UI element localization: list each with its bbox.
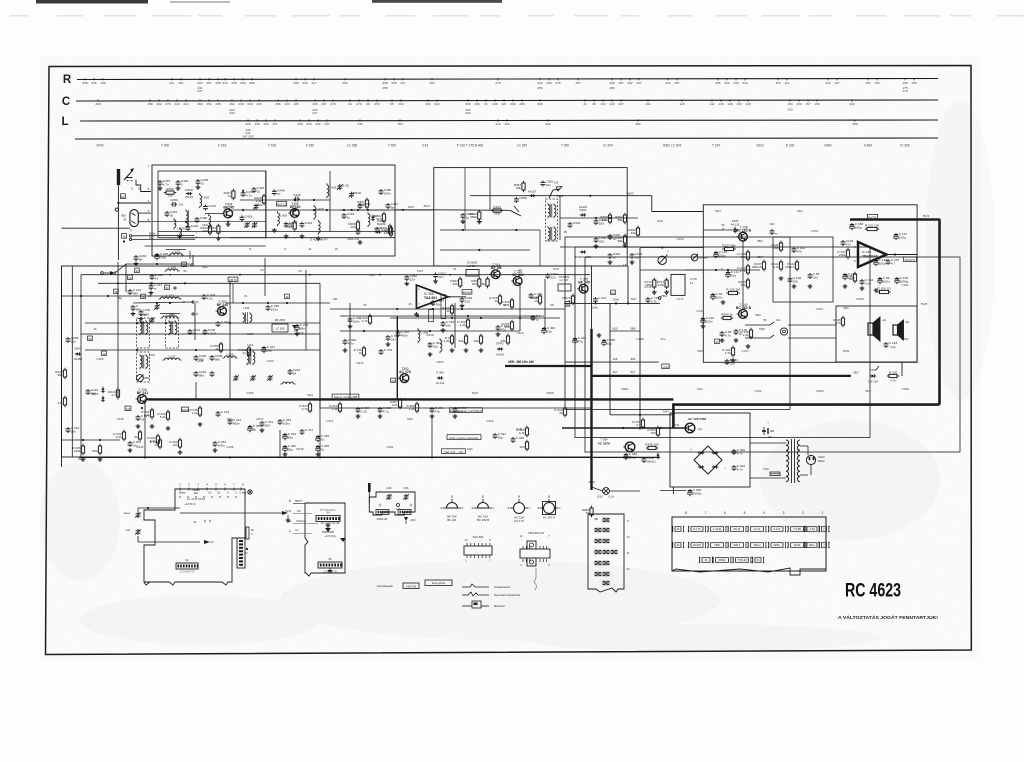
svg-text:437: 437 <box>272 122 277 126</box>
PCB1 internal <box>180 496 236 506</box>
svg-text:5)V4: 5)V4 <box>553 267 559 271</box>
svg-text:8,5V: 8,5V <box>597 495 603 499</box>
svg-text:308: 308 <box>465 102 470 106</box>
node h-58 <box>594 517 598 521</box>
C line component numbers <box>95 99 854 106</box>
svg-text:1n: 1n <box>347 215 351 219</box>
svg-text:5: 5 <box>744 511 746 515</box>
boxlabel Hg <box>611 290 616 295</box>
svg-text:AM 7b: AM 7b <box>229 278 237 282</box>
node 5V5 <box>516 427 522 431</box>
svg-text:T95k: T95k <box>714 543 720 547</box>
svg-text:263: 263 <box>342 81 347 85</box>
svg-text:C323: C323 <box>517 331 524 335</box>
svg-text:56: 56 <box>849 277 853 281</box>
wire audio-in <box>640 269 703 271</box>
svg-text:440: 440 <box>357 122 362 126</box>
svg-text:100n: 100n <box>271 307 278 311</box>
scan smudge top-left2 <box>170 1 230 3</box>
diode D195 <box>733 227 736 233</box>
capacitor C312 <box>260 420 274 432</box>
svg-text:(58: (58 <box>594 517 598 521</box>
capacitor C345 <box>316 444 330 452</box>
svg-text:D408: D408 <box>185 188 193 192</box>
IF can L243 <box>247 343 255 365</box>
svg-text:154: 154 <box>874 81 879 85</box>
svg-text:100n: 100n <box>706 320 713 324</box>
svg-text:1k: 1k <box>154 443 158 447</box>
wire 5V3 drop <box>627 266 629 305</box>
coil L425 <box>174 218 176 229</box>
boxlabel RuT10 <box>277 201 287 206</box>
svg-text:439: 439 <box>254 122 259 126</box>
capacitor C325 <box>461 212 474 223</box>
caption mw <box>508 360 533 364</box>
boxlabel 18 <box>114 289 119 294</box>
capacitor C341 <box>493 432 507 439</box>
wire demod out <box>448 279 496 297</box>
capacitor C156 <box>878 276 890 284</box>
svg-text:81k: 81k <box>459 339 464 343</box>
svg-text:L429: L429 <box>280 214 287 218</box>
ground mid <box>343 348 484 356</box>
resistor R147 <box>837 248 849 259</box>
IF transformer L209 <box>548 203 556 218</box>
svg-text:R127 40k: R127 40k <box>722 243 736 247</box>
resistor R429 <box>254 194 265 205</box>
wire vert306 <box>305 270 307 350</box>
svg-text:0364: 0364 <box>824 144 831 148</box>
svg-text:4,7: 4,7 <box>891 261 896 265</box>
diode D210 <box>101 387 104 402</box>
resistor R242 <box>113 430 141 441</box>
svg-text:L 227: L 227 <box>166 293 174 297</box>
svg-text:100μ: 100μ <box>879 262 886 266</box>
svg-text:8: 8 <box>685 511 687 515</box>
svg-text:3,2μ: 3,2μ <box>890 345 896 349</box>
capacitor C347m <box>262 345 276 353</box>
pinout AC187K <box>538 495 561 520</box>
svg-text:6: 6 <box>181 182 183 186</box>
wire vert743 <box>742 241 744 310</box>
agc box <box>575 247 870 438</box>
resistor R402 <box>374 212 385 223</box>
switch slant <box>510 206 521 216</box>
resistor R362a <box>615 213 626 224</box>
node 50 <box>722 219 740 230</box>
svg-text:680k: 680k <box>470 215 477 219</box>
svg-text:345: 345 <box>91 81 96 85</box>
resistor R313 <box>329 402 341 413</box>
svg-text:206: 206 <box>474 102 479 106</box>
svg-text:1M: 1M <box>554 181 559 185</box>
jack contacts <box>760 318 781 338</box>
svg-text:95k: 95k <box>774 246 779 250</box>
svg-text:298: 298 <box>293 81 298 85</box>
capacitor C311 <box>348 316 362 323</box>
big box R716 <box>671 274 697 295</box>
svg-text:50: 50 <box>764 318 767 322</box>
svg-text:39: 39 <box>586 511 590 515</box>
ground am lower <box>128 448 218 454</box>
svg-text:980: 980 <box>199 373 204 377</box>
svg-text:L435: L435 <box>330 186 337 190</box>
resistor R105 <box>887 370 899 382</box>
svg-text:129: 129 <box>679 102 684 106</box>
svg-text:426: 426 <box>545 122 550 126</box>
svg-text:223: 223 <box>174 102 179 106</box>
capacitor C308 <box>378 406 392 413</box>
wire transformer <box>750 443 811 478</box>
svg-text:179: 179 <box>902 89 907 93</box>
PCB1 wire1 <box>138 507 180 512</box>
svg-text:5k: 5k <box>482 282 486 286</box>
wire 5V3 upper <box>470 192 703 212</box>
svg-text:134: 134 <box>600 102 605 106</box>
svg-text:56)7: 56)7 <box>853 371 859 375</box>
pins FM bottom <box>249 247 338 251</box>
svg-text:390(L): 390(L) <box>647 459 656 463</box>
svg-text:3: 3 <box>783 511 785 515</box>
wire FM mid <box>205 209 262 214</box>
resistor P308 <box>600 213 611 224</box>
wire AM rf net3 <box>133 302 193 304</box>
resistor R316 <box>501 298 513 309</box>
svg-text:+: + <box>767 421 769 425</box>
capacitor C145 <box>843 272 857 280</box>
capacitor C345b <box>316 434 330 442</box>
svg-text:270: 270 <box>356 102 361 106</box>
resistor R310 <box>554 406 566 417</box>
svg-text:4,7n: 4,7n <box>348 341 354 345</box>
svg-text:1,2k: 1,2k <box>602 218 608 222</box>
resistor R431 <box>209 224 220 235</box>
box LC354 <box>466 260 479 276</box>
svg-text:4,7k: 4,7k <box>302 407 308 411</box>
svg-text:10: 10 <box>534 299 538 303</box>
svg-text:D047: D047 <box>75 347 82 351</box>
resistor R240 <box>55 368 66 379</box>
svg-text:326: 326 <box>312 102 317 106</box>
svg-text:433: 433 <box>263 122 268 126</box>
thick wire power drop <box>672 403 675 428</box>
resistor R366 <box>469 210 481 224</box>
node D300c <box>436 371 444 375</box>
svg-text:157: 157 <box>805 102 810 106</box>
capacitor C104 <box>711 292 723 300</box>
svg-text:4,7μ: 4,7μ <box>383 409 389 413</box>
svg-text:100n: 100n <box>716 296 723 300</box>
svg-text:0310: 0310 <box>756 144 763 148</box>
svg-text:PU: PU <box>297 509 301 513</box>
transformer <box>786 439 800 483</box>
coil L237 <box>163 354 182 360</box>
capacitor C148a <box>841 239 854 246</box>
resistor R407 <box>357 198 368 209</box>
capacitor C347 <box>592 296 607 309</box>
node 5V3 r <box>921 214 929 306</box>
boxlabel 6V4V <box>462 290 472 295</box>
svg-text:L262: L262 <box>247 332 254 336</box>
resistor R405 <box>381 226 392 237</box>
IF can L241 <box>166 313 179 348</box>
resistor R121 <box>722 346 734 357</box>
svg-text:Feszültségek: Feszültségek <box>377 584 393 588</box>
capacitor C450 <box>170 198 183 207</box>
svg-text:Mérőpont: Mérőpont <box>494 604 505 608</box>
svg-text:6-120: 6-120 <box>774 527 781 531</box>
capacitor C381 <box>283 444 297 452</box>
svg-text:6,8: 6,8 <box>179 203 184 207</box>
svg-text:150: 150 <box>796 102 801 106</box>
svg-text:417: 417 <box>400 81 405 85</box>
svg-text:4eves: 4eves <box>124 512 131 515</box>
R line stacked numbers <box>197 86 907 93</box>
svg-text:220μ: 220μ <box>719 254 726 258</box>
svg-text:305: 305 <box>715 81 720 85</box>
capacitor C363a <box>216 320 230 327</box>
svg-text:BF245: BF245 <box>223 205 234 209</box>
svg-text:16: 16 <box>142 295 145 299</box>
boxlabel 66 <box>565 302 570 307</box>
node NC <box>770 222 778 235</box>
PCB3 outline <box>369 492 415 515</box>
C line stacked numbers <box>229 108 792 115</box>
capacitor C158 <box>850 222 864 230</box>
svg-text:276: 276 <box>555 81 560 85</box>
svg-text:5,8: 5,8 <box>675 423 679 427</box>
svg-text:256: 256 <box>537 86 542 90</box>
svg-text:6V(TV): 6V(TV) <box>868 215 877 219</box>
ground AMmix <box>136 407 203 430</box>
svg-text:270: 270 <box>495 81 500 85</box>
resistor R433 <box>738 278 749 289</box>
resistor R211 <box>150 438 162 449</box>
scan smudge top-mid <box>372 0 502 3</box>
svg-text:C133: C133 <box>697 309 704 313</box>
svg-text:201: 201 <box>178 81 183 85</box>
svg-text:C255: C255 <box>247 391 254 395</box>
svg-text:4,7k: 4,7k <box>362 319 368 323</box>
svg-text:(4V)(TV): (4V)(TV) <box>905 258 916 262</box>
package TBA800 <box>520 531 551 567</box>
capacitor C220 <box>131 304 142 316</box>
coil L432 <box>200 193 210 208</box>
svg-text:L242: L242 <box>149 353 155 357</box>
svg-text:52μ: 52μ <box>498 435 503 439</box>
table row3 <box>699 557 764 563</box>
svg-text:220k A: 220k A <box>785 265 795 269</box>
svg-text:283: 283 <box>609 86 614 90</box>
svg-text:5)5a: 5)5a <box>843 306 849 310</box>
svg-text:0 364: 0 364 <box>864 144 872 148</box>
svg-text:C423: C423 <box>191 224 199 228</box>
pinout BC413 <box>472 495 495 523</box>
svg-text:R3125: R3125 <box>693 543 701 547</box>
svg-text:270: 270 <box>165 102 170 106</box>
svg-text:7μ: 7μ <box>321 448 325 452</box>
svg-text:235: 235 <box>215 102 220 106</box>
svg-text:560: 560 <box>287 225 292 229</box>
capacitor C360 <box>732 448 746 455</box>
svg-text:4,7n: 4,7n <box>737 451 743 455</box>
wire AM rf net <box>115 255 193 292</box>
svg-text:C452: C452 <box>200 216 208 220</box>
svg-text:5)5/9: 5)5/9 <box>843 349 850 353</box>
svg-text:400k B: 400k B <box>752 265 762 269</box>
svg-text:R106: R106 <box>817 389 824 393</box>
svg-text:C303: C303 <box>573 221 581 225</box>
capacitor D142 <box>725 358 739 365</box>
svg-text:64: 64 <box>348 102 352 106</box>
svg-text:165: 165 <box>911 81 916 85</box>
wire if vert560 <box>559 196 561 240</box>
AM inner box <box>81 334 320 457</box>
svg-text:1n: 1n <box>536 317 540 321</box>
wire am row323 <box>85 322 320 324</box>
svg-text:47μ: 47μ <box>435 409 440 413</box>
svg-text:7m: 7m <box>756 558 760 562</box>
svg-text:R205: R205 <box>137 445 144 449</box>
svg-text:96: 96 <box>564 230 568 234</box>
resistor R408 <box>164 187 176 197</box>
svg-text:L240: L240 <box>140 313 146 317</box>
mains plug <box>806 455 825 465</box>
svg-text:B: B <box>482 495 484 499</box>
svg-text:L238: L238 <box>197 359 204 363</box>
svg-text:R434 1k: R434 1k <box>721 312 733 316</box>
capacitor C451 <box>165 210 178 217</box>
coil L230 <box>165 265 187 273</box>
coil L435 <box>327 183 337 198</box>
svg-text:IC 390: IC 390 <box>900 144 910 148</box>
svg-text:100n: 100n <box>384 191 391 195</box>
svg-text:AC 176: AC 176 <box>399 370 411 374</box>
capacitor C303 <box>564 221 581 234</box>
resistor R322 <box>457 318 469 329</box>
svg-text:1,2k: 1,2k <box>192 411 198 415</box>
svg-text:4b: 4b <box>93 327 97 331</box>
svg-text:RC 4623: RC 4623 <box>845 580 901 602</box>
svg-text:R151: R151 <box>812 229 819 233</box>
svg-text:112: 112 <box>785 81 790 85</box>
svg-text:5(V7: 5(V7 <box>663 410 669 414</box>
svg-text:Ra: Ra <box>121 195 125 199</box>
antenna <box>117 169 120 260</box>
demod box <box>565 237 790 410</box>
svg-text:C717: C717 <box>677 297 684 301</box>
capacitor C447 <box>386 202 399 209</box>
svg-text:500μA: 500μA <box>699 256 709 260</box>
svg-text:BNTT.: BNTT. <box>295 499 302 503</box>
caption erzekenyseg <box>450 408 483 413</box>
boxlabel 21b <box>227 417 233 421</box>
svg-text:100k: 100k <box>358 203 365 207</box>
svg-text:142: 142 <box>709 102 714 106</box>
capacitor C424 <box>284 221 297 228</box>
svg-text:33n: 33n <box>391 337 396 341</box>
resistor R127 <box>722 243 736 250</box>
legend line1 <box>462 584 510 589</box>
PCB1 trimmer2 <box>125 529 140 535</box>
capacitor C318 <box>441 320 455 327</box>
resistor R168 <box>833 316 844 327</box>
capacitor C153 <box>886 258 900 265</box>
svg-text:AC 176: AC 176 <box>514 519 524 523</box>
svg-text:14: 14 <box>129 276 132 280</box>
node 6-201 <box>589 480 596 484</box>
svg-text:910: 910 <box>453 282 458 286</box>
svg-text:5)V6: 5)V6 <box>613 298 619 302</box>
coil L233 <box>166 249 190 259</box>
svg-text:38μ: 38μ <box>267 349 272 353</box>
boxlabel 62 <box>391 378 396 383</box>
paper tint <box>40 100 995 652</box>
scan smudge top-left <box>36 0 148 4</box>
svg-text:54: 54 <box>184 269 187 273</box>
resistor R155 <box>846 272 857 283</box>
wire antenna to pin1 <box>117 202 151 204</box>
capacitor C356 <box>540 180 553 187</box>
wire bulb <box>592 487 641 491</box>
svg-text:428: 428 <box>245 122 250 126</box>
ground IF <box>594 243 635 264</box>
resistor P144 <box>785 260 798 271</box>
svg-text:AM: AM <box>333 297 338 301</box>
capacitor C131 <box>726 270 740 278</box>
svg-text:+114: +114 <box>662 365 669 369</box>
svg-text:12b: 12b <box>126 407 131 411</box>
transistor T406 <box>288 202 300 217</box>
svg-text:1100: 1100 <box>354 191 361 195</box>
boxlabel 14b <box>128 275 133 280</box>
svg-text:C358: C358 <box>519 196 527 200</box>
svg-text:417: 417 <box>311 81 316 85</box>
svg-text:61)5: 61)5 <box>612 327 618 331</box>
trimmer C239 <box>233 375 239 381</box>
transistor T300 <box>398 367 411 382</box>
svg-text:437: 437 <box>324 122 329 126</box>
svg-text:10n: 10n <box>635 255 640 259</box>
svg-text:2 3 4 5 6 7 8: 2 3 4 5 6 7 8 <box>180 571 195 574</box>
capacitor C365 <box>688 488 702 496</box>
resistor R320 <box>359 314 371 325</box>
capacitor C126 <box>714 250 728 258</box>
svg-text:68k: 68k <box>618 239 623 243</box>
bus dots mw <box>529 365 593 367</box>
svg-text:223: 223 <box>813 275 818 279</box>
diode AA119 upper <box>528 190 537 198</box>
boxlabel 7a <box>78 457 82 461</box>
svg-text:R 160 1Ω: R 160 1Ω <box>877 286 891 290</box>
wire 503 <box>62 228 198 242</box>
svg-text:C449: C449 <box>293 193 301 197</box>
thick wire bottom right <box>673 403 939 406</box>
svg-text:54)1: 54)1 <box>369 273 375 277</box>
svg-text:158: 158 <box>902 81 907 85</box>
thick wire AM AF line <box>148 398 674 400</box>
PCB2 conn S5 <box>318 557 342 574</box>
diode D408 <box>185 188 193 199</box>
svg-text:AA 116: AA 116 <box>731 222 740 226</box>
svg-text:31: 31 <box>453 267 457 271</box>
svg-text:470: 470 <box>797 249 802 253</box>
resistor R262 <box>238 346 250 357</box>
svg-text:T 374: T 374 <box>712 144 720 148</box>
capacitor C163 <box>884 341 898 349</box>
wire audio row230 <box>703 229 738 231</box>
transistor T315 <box>511 270 524 285</box>
